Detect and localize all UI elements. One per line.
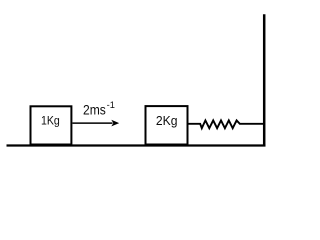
block M2 (2Kg) xyxy=(146,106,188,144)
svg-text:2Kg: 2Kg xyxy=(156,113,178,128)
svg-text:-1: -1 xyxy=(107,100,115,110)
velocity arrow xyxy=(73,120,120,127)
label 2ms^-1 xyxy=(83,100,115,119)
svg-text:2ms: 2ms xyxy=(83,103,106,119)
ground xyxy=(7,144,266,146)
wall xyxy=(263,14,266,146)
block M1 (1Kg) xyxy=(31,106,72,144)
svg-text:1Kg: 1Kg xyxy=(41,114,60,128)
spring xyxy=(188,120,265,128)
